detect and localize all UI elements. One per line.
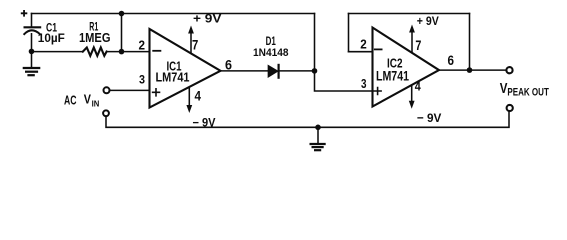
svg-text:+ 9V: + 9V	[193, 14, 222, 26]
svg-text:V: V	[84, 92, 92, 107]
U1 minus input mark	[153, 50, 160, 52]
svg-text:PEAK OUT: PEAK OUT	[507, 86, 549, 98]
terminal input return	[103, 110, 109, 116]
ground (bottom rail)	[311, 127, 325, 150]
junction on top wire	[119, 11, 125, 17]
terminal output return	[507, 105, 513, 111]
junction R1/feedback at pin2	[119, 49, 125, 55]
wire feedback drop to pin2 node	[121, 14, 123, 52]
wire U2 output	[439, 69, 506, 71]
junction U2 output/feedback	[467, 67, 473, 73]
V+ supply arrow U2 pin7	[409, 25, 415, 53]
ground (input side)	[24, 51, 39, 75]
wire U1 output to diode	[221, 70, 269, 72]
svg-text:4: 4	[195, 89, 202, 104]
wire input to U1 pin3	[110, 89, 150, 91]
svg-text:IN: IN	[92, 99, 100, 109]
svg-text:− 9V: − 9V	[193, 115, 216, 129]
svg-text:3: 3	[139, 72, 145, 86]
V+ supply arrow U1 pin7	[188, 26, 194, 53]
wire U2 feedback: left riser	[348, 14, 350, 52]
resistor R1	[32, 48, 150, 56]
svg-text:− 9V: − 9V	[417, 111, 442, 125]
wire feedback down-leg to storage node	[314, 14, 316, 71]
capacitor C1	[24, 14, 40, 52]
wire storage node to U2 pin3	[315, 71, 373, 91]
wire U2 feedback: top run	[349, 13, 470, 15]
U2 minus input mark	[375, 48, 382, 50]
op-amp U1 triangle	[150, 29, 221, 108]
terminal Vout	[506, 67, 512, 73]
svg-text:1MEG: 1MEG	[79, 31, 111, 45]
svg-text:1N4148: 1N4148	[253, 47, 289, 59]
junction storage node	[312, 68, 318, 74]
junction bottom rail ground	[315, 125, 321, 131]
svg-text:7: 7	[192, 38, 198, 53]
U2 plus input mark	[374, 88, 381, 95]
wire bottom rail	[106, 111, 509, 127]
wire U2 feedback: right drop	[469, 14, 471, 71]
capacitor C1 plus mark	[22, 11, 27, 16]
diode D1	[268, 65, 314, 78]
V- supply arrow U1 pin4	[186, 88, 192, 114]
junction C1/R1/ground	[29, 49, 35, 55]
svg-text:10µF: 10µF	[38, 31, 65, 45]
wire U2 feedback: pin2 horizontal	[349, 51, 373, 53]
op-amp U2 triangle	[373, 28, 440, 107]
svg-text:AC: AC	[64, 93, 77, 107]
svg-text:3: 3	[361, 76, 367, 91]
svg-text:6: 6	[225, 58, 232, 73]
U1 plus input mark	[153, 89, 160, 96]
svg-text:7: 7	[415, 38, 421, 53]
svg-text:4: 4	[415, 79, 421, 93]
V- supply arrow U2 pin4	[409, 85, 415, 109]
wire top feedback run	[32, 13, 315, 15]
svg-text:LM741: LM741	[376, 68, 409, 83]
svg-text:+ 9V: + 9V	[417, 16, 439, 28]
terminal AC Vin (signal)	[104, 87, 110, 93]
svg-text:LM741: LM741	[156, 70, 190, 85]
svg-text:2: 2	[360, 37, 367, 52]
svg-text:6: 6	[448, 53, 455, 68]
svg-text:2: 2	[139, 38, 146, 53]
